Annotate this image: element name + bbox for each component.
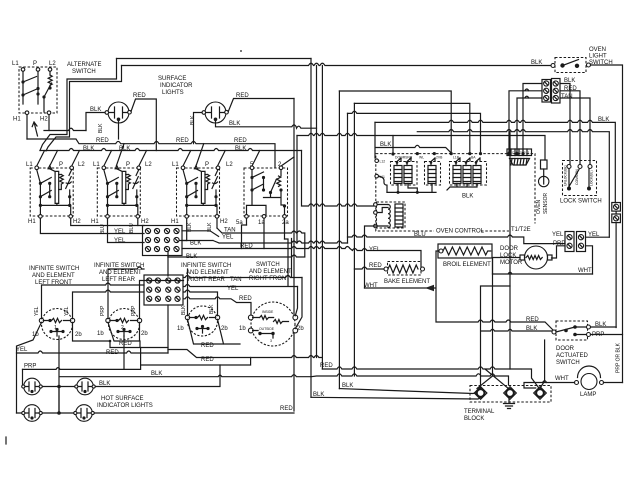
control top pins [391,152,394,155]
svg-text:INDICATOR LIGHTS: INDICATOR LIGHTS [97,403,153,409]
svg-text:BLK: BLK [342,383,353,389]
wire ind2 bottom lead and BLK bus [216,121,317,128]
svg-text:2b: 2b [75,332,82,338]
wire door outputs [591,327,623,335]
terminal P [36,68,40,72]
wires below control: BLU [348,235,566,244]
wire x510 vertical [509,132,511,369]
relay group 3 dashed [450,162,487,186]
svg-text:BLK: BLK [598,117,609,123]
svg-text:DOOR: DOOR [556,346,575,352]
wire staircase inner [46,66,122,152]
svg-text:P: P [33,61,37,67]
wire tan to c2 leg [184,239,303,278]
wires c3 left crossover [509,84,542,154]
connector block C2 [144,275,183,305]
wires c3 right to lock switch [560,84,590,165]
svg-text:BLU: BLU [100,224,106,234]
wire oven light to right vertical [591,65,623,383]
wire 1a to red row [242,218,265,248]
svg-text:YEL: YEL [16,347,28,353]
wire ind2 right lead to red bus [228,99,294,112]
relay bottom bus [387,184,436,193]
svg-text:WHT: WHT [578,268,592,274]
svg-text:L1: L1 [12,61,19,67]
wire x297 vertical [296,136,298,244]
svg-text:INFINITE SWITCH: INFINITE SWITCH [94,263,144,269]
svg-text:1: 1 [528,151,530,155]
box4 interior [247,170,285,215]
svg-text:BLK: BLK [209,304,215,314]
alternate switch right contact [44,83,52,112]
control left terminals [375,159,379,163]
wire bus y369 [322,367,538,389]
pointer arrow [32,122,37,136]
arrowhead [425,285,434,291]
svg-text:DOOR: DOOR [500,246,519,252]
svg-text:UNLOCK(BK): UNLOCK(BK) [564,165,568,186]
wire long vertical RED x294 [293,99,295,412]
wire between squares and down [615,211,617,327]
wire nest y122.4 BLK bus [375,120,615,202]
wire vertical x354 [353,103,355,376]
svg-text:H1: H1 [91,219,99,225]
relay3 bottom elbow [447,184,477,191]
svg-text:L1: L1 [172,162,179,168]
svg-text:INSIDE: INSIDE [262,310,274,314]
wires below box1 [40,218,144,233]
terminals box4 top [250,166,254,170]
wire x168 link into C1 bottom [167,249,169,257]
i mark [5,437,7,444]
wire x340 slant to TB [339,389,478,394]
wire yel long row y243 [182,241,348,244]
svg-text:YEL: YEL [222,235,234,241]
broil element [438,244,492,258]
coil bar 6 [473,166,481,184]
terminal block [470,386,551,403]
element 2 left rear [106,309,142,340]
junction 2a stem with transformer line [283,204,286,207]
wires box3/4 terminals down [187,218,285,240]
wire red to bake [354,267,384,269]
wire WHT bus y274 [493,258,593,275]
svg-text:YEL: YEL [369,247,381,253]
svg-text:BLK: BLK [98,123,104,133]
surface switch box 4 [244,168,288,216]
svg-text:WHT: WHT [555,376,569,382]
wire ind1 bottom lead [118,121,120,139]
svg-text:2a: 2a [282,220,289,226]
label OVEN CONTROL [434,226,481,234]
wire nest y135.5 TAN [297,133,545,160]
coil bar 4 [453,166,461,184]
wire long vertical x311 [310,59,312,398]
hot surface indicator D [74,405,95,422]
svg-text:BLK: BLK [229,121,240,127]
label T1/T2E [509,224,538,233]
svg-text:RED: RED [280,406,293,412]
wire H2 down [48,115,50,131]
svg-text:T1/T2E: T1/T2E [511,227,531,233]
lock switch [563,161,597,196]
wire elem2 feeders up [108,267,184,319]
hatch component [510,159,530,166]
svg-text:L2: L2 [226,162,233,168]
wire yel bus y353 [17,351,169,353]
ground symbol [504,397,515,409]
transformer [374,202,405,228]
svg-text:2b: 2b [221,326,228,332]
wire bus y376 [311,374,509,385]
terminal H2 [47,111,51,115]
wire x168 vertical C1 to yel bus [167,257,169,354]
wire wht arrow wire [365,251,555,331]
svg-text:AND ELEMENT: AND ELEMENT [186,270,229,276]
resistor in alternate switch [48,75,52,88]
svg-text:L12: L12 [380,160,386,164]
svg-text:3: 3 [270,339,272,343]
svg-text:LOCK: LOCK [500,253,516,259]
svg-text:P: P [126,162,130,168]
bake element [384,262,425,276]
wire BLK to terminal block left [311,397,483,400]
svg-text:LIGHTS: LIGHTS [162,90,184,96]
svg-text:LOCK SWITCH: LOCK SWITCH [560,199,602,205]
svg-text:INDICATOR: INDICATOR [160,83,193,89]
wire red rows elem3 [168,319,251,357]
wire red row c2 to elem4 [184,297,252,316]
coil bar 5 [463,166,471,184]
svg-text:YEL: YEL [64,306,70,316]
wire nest y91 [339,91,451,152]
svg-text:RED: RED [119,341,132,347]
svg-text:SENSOR: SENSOR [543,192,549,214]
svg-text:1b: 1b [97,331,104,337]
pin strip 9C8721 [507,149,532,156]
svg-text:PRP: PRP [24,364,36,370]
wire Z line y365/357.5 [141,356,323,366]
svg-text:8: 8 [516,151,518,155]
svg-text:BAKE ELEMENT: BAKE ELEMENT [384,279,430,285]
wire ind1 left lead [86,113,105,131]
wire H1 down to feeder row [26,115,28,140]
coil bar 2 [404,166,412,184]
svg-text:2: 2 [121,325,124,331]
L11 hook wire [379,176,388,192]
svg-text:LEFT REAR: LEFT REAR [102,277,136,283]
svg-text:RIGHT REAR: RIGHT REAR [188,277,226,283]
wire nest y131.7 [417,130,609,238]
surface switch box 2 [97,166,140,219]
alternate switch dashed box [19,67,57,113]
wire hot surface row1 [43,365,221,387]
svg-text:RED: RED [106,350,119,356]
wire long vertical x316.5 [316,66,318,358]
wire top bus 1 [117,58,312,60]
svg-text:WL: WL [419,156,424,160]
oven control dashed box [376,154,535,231]
svg-text:BLU: BLU [414,232,426,238]
svg-text:RED: RED [320,363,333,369]
svg-text:1b: 1b [239,326,246,332]
wire BLK line to door sw [481,286,553,388]
svg-text:BROIL ELEMENT: BROIL ELEMENT [443,262,491,268]
wire elem3 feeders up [184,269,218,316]
pin1 wire up [392,136,394,155]
svg-text:INFINITE SWITCH: INFINITE SWITCH [29,266,79,272]
hot surface indicator A [22,378,43,395]
wire tan row [168,228,305,257]
svg-text:BLK: BLK [526,326,537,332]
surface indicator light 2 [202,102,228,123]
svg-text:ACTUATED: ACTUATED [556,353,589,359]
wire elem1 2b down [73,322,111,341]
wire hot surface row2 [17,412,295,414]
svg-text:BLOCK: BLOCK [464,416,484,422]
svg-text:OVEN: OVEN [536,199,542,214]
svg-text:YEL: YEL [114,229,126,235]
svg-text:H2: H2 [40,117,48,123]
svg-text:P: P [59,162,63,168]
svg-text:1b: 1b [177,326,184,332]
wire x545 vertical lower [541,340,545,388]
svg-text:H1: H1 [13,117,21,123]
wire yel row to c2 [184,239,298,287]
element 3 right rear [185,306,219,336]
svg-text:YEL: YEL [34,306,40,316]
wire prp bus y369.4 [23,348,141,370]
square terminal B [612,214,621,223]
svg-text:OVEN CONTROL: OVEN CONTROL [436,229,485,235]
wire nest y113.4 [348,111,481,151]
wire slant feeders to box terminals [37,144,294,166]
lamp [575,366,604,390]
svg-text:L2: L2 [145,162,152,168]
wire feeder row y139 [27,139,275,167]
svg-text:LAMP: LAMP [580,392,596,398]
wire lamp right [604,382,623,384]
element 4 right front [248,302,297,346]
wire staircase outer [40,59,117,151]
svg-text:H1: H1 [28,219,36,225]
hot surface indicator C [22,405,43,422]
coil bar 3 [428,166,436,184]
svg-text:PRP: PRP [100,305,106,316]
svg-text:TERMINAL: TERMINAL [464,409,495,415]
svg-text:2VB: 2VB [436,156,443,160]
wire x492 vertical [477,274,493,389]
YEL PRP strips [565,232,586,252]
hot surface indicator B [75,378,96,395]
wire elem2 bottom down [123,336,125,369]
connector C3 [542,79,560,104]
svg-text:H2: H2 [141,219,149,225]
svg-text:RIGHT FRONT: RIGHT FRONT [249,276,290,282]
wire nest y103.4 [354,103,469,151]
speck artifact [240,50,242,52]
svg-text:HOT SURFACE: HOT SURFACE [101,396,144,402]
svg-text:BLK: BLK [186,254,197,260]
svg-text:AND ELEMENT: AND ELEMENT [99,270,142,276]
svg-text:BLK: BLK [99,381,110,387]
surface indicator light 1 [105,102,131,123]
wire top bus 2 [122,63,554,65]
svg-text:BLU: BLU [129,223,135,233]
wire ind1 right lead to red row [131,99,156,151]
svg-text:2b: 2b [297,326,304,332]
svg-text:2b: 2b [141,331,148,337]
wire vertical x347.5 [347,113,349,243]
wire yel row2 [108,218,145,242]
svg-text:BLK: BLK [531,60,542,66]
oven light switch [551,58,591,73]
wire elem4 right feeders [295,278,302,329]
wire long vertical x322.4 [321,66,323,370]
door lock motor [520,246,552,269]
wire red rows elem2 [108,322,168,347]
wire PRP to motor [552,246,566,258]
wire ind2 left lead [194,113,203,144]
svg-text:H2: H2 [73,219,81,225]
coil bar 1 [394,166,402,184]
wire strip2 lower to WHT [586,246,593,274]
svg-text:2: 2 [524,151,526,155]
wire YEL right to x609 [586,236,610,238]
wire junction column [58,387,60,414]
door actuated switch [552,321,591,340]
svg-text:BLK: BLK [462,194,473,200]
surface switch box 3 [177,166,220,219]
svg-text:L2: L2 [49,61,56,67]
wire elem1 bottom feeder [59,336,311,413]
relay3 top contacts [456,158,480,166]
svg-text:AND ELEMENT: AND ELEMENT [32,273,75,279]
svg-text:YEL: YEL [227,286,239,292]
wire prp left end to circle A [22,369,24,386]
svg-text:YEL: YEL [552,232,564,238]
svg-text:LOCK(BL): LOCK(BL) [590,170,594,186]
svg-text:BLK: BLK [190,241,201,247]
svg-text:PRP OR BLK: PRP OR BLK [616,342,622,373]
wire elem1 1b slant to yel [17,322,42,413]
svg-text:L1: L1 [93,162,100,168]
svg-text:INFINITE SWITCH: INFINITE SWITCH [181,263,231,269]
relay1 top contacts [397,158,411,166]
wire box2 H2 down [137,218,139,225]
connector block C1 [143,226,183,256]
svg-text:H2: H2 [220,219,228,225]
svg-text:TAN: TAN [230,277,242,283]
svg-text:L1: L1 [26,162,33,168]
square terminal A [612,203,621,212]
svg-text:7: 7 [520,151,522,155]
svg-text:RED: RED [369,263,382,269]
terminal L2 [48,68,52,72]
relay group 2 dashed [425,162,441,186]
alternate switch contacts [23,71,50,104]
svg-text:1: 1 [54,325,57,331]
contact dots alternate switch [21,80,24,83]
svg-text:MOTOR: MOTOR [500,260,523,266]
terminal L1 [21,68,25,72]
svg-text:RED: RED [239,296,252,302]
svg-text:P: P [205,162,209,168]
svg-text:BA: BA [471,156,476,160]
svg-text:SWITCH: SWITCH [256,262,280,268]
wire blk short [179,240,187,242]
relay group 1 dashed [391,162,418,186]
svg-text:RED: RED [133,93,146,99]
wire yel to broil (now part of red long row) [365,226,378,288]
wire C1 row1 exit to tan row [182,231,219,237]
wire broil right down to WHT bus [492,258,494,274]
svg-text:PRP: PRP [131,305,137,316]
svg-text:BLK: BLK [181,305,187,315]
svg-text:OVEN: OVEN [589,47,606,53]
element 1 left front [39,309,74,340]
wire feeder row y150.5 [40,149,302,151]
svg-text:BLK: BLK [151,371,162,377]
svg-text:H1: H1 [171,219,179,225]
wire lamp WHT to TB [524,381,575,388]
svg-text:L2: L2 [78,162,85,168]
svg-text:OUTSIDE: OUTSIDE [259,327,275,331]
wire red long row y251 [182,247,421,268]
svg-text:LIGHT: LIGHT [589,54,607,60]
svg-text:COMMON: COMMON [575,169,579,185]
terminals box4 bottom [245,215,249,219]
surface switch box 1 [30,166,73,219]
feeder short row y130.5 [44,128,86,130]
svg-text:SWITCH: SWITCH [72,69,96,75]
wire vertical x339 to TB [338,91,340,389]
wire x301.5 down to transformer feed [302,151,374,207]
svg-text:SWITCH: SWITCH [556,360,580,366]
svg-text:ALTERNATE: ALTERNATE [67,62,101,68]
wire elem1 feeders up [42,283,145,319]
oven sensor [539,160,549,187]
svg-text:AND ELEMENT: AND ELEMENT [249,269,292,275]
svg-text:RED: RED [526,317,539,323]
terminal H1 [25,111,29,115]
svg-text:SURFACE: SURFACE [158,76,186,82]
svg-text:TAN: TAN [561,94,573,100]
